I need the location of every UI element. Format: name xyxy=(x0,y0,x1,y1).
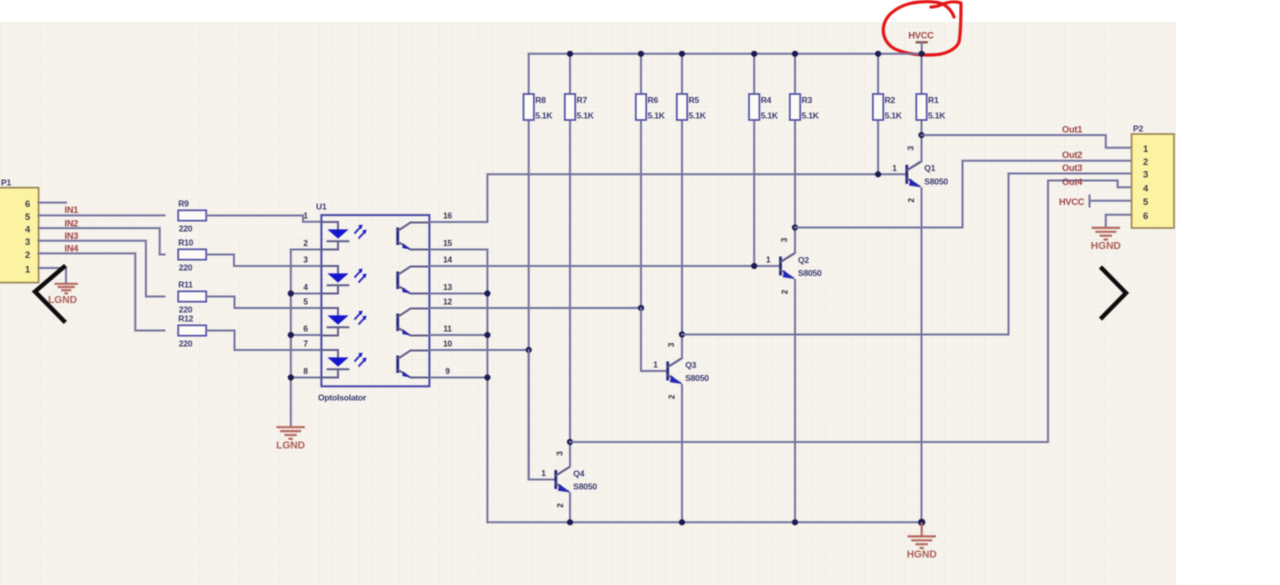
svg-text:5: 5 xyxy=(1143,196,1148,207)
svg-text:1: 1 xyxy=(541,469,546,478)
svg-text:S8050: S8050 xyxy=(924,177,948,187)
junction Q3 emitter/bus xyxy=(679,519,685,525)
resistor R10 220 xyxy=(178,237,206,272)
wire R6 to Q3 base xyxy=(641,308,668,371)
wire U1 cathode stub xyxy=(291,293,322,295)
junction dot U1.12/R6 xyxy=(638,305,644,311)
wire HVCC top bus xyxy=(529,53,922,55)
wire R10 to U1 pin 3 xyxy=(206,255,321,267)
svg-text:5.1K: 5.1K xyxy=(761,110,779,120)
left chevron overlay xyxy=(35,267,64,321)
wire R1 column xyxy=(921,54,923,135)
wire R5 column xyxy=(681,54,683,335)
phototransistor channel 1 inside U1 xyxy=(398,223,430,250)
svg-text:2: 2 xyxy=(303,239,308,248)
svg-text:5.1K: 5.1K xyxy=(802,110,820,120)
svg-text:2: 2 xyxy=(25,249,30,260)
svg-text:R2: R2 xyxy=(885,95,896,105)
resistor R7 5.1K xyxy=(565,94,595,120)
junction Q2 emitter/bus xyxy=(792,519,798,525)
right chevron overlay xyxy=(1102,269,1126,318)
phototransistor channel 3 inside U1 xyxy=(398,309,430,336)
power port HVCC (top) xyxy=(908,31,934,54)
svg-text:1: 1 xyxy=(303,212,308,221)
junction dot R5/Out3 xyxy=(679,331,685,337)
svg-text:8: 8 xyxy=(303,367,308,376)
phototransistor channel 4 inside U1 xyxy=(398,351,430,378)
wire Q4 collector to R7 xyxy=(557,442,570,475)
svg-text:R4: R4 xyxy=(761,95,772,105)
svg-text:3: 3 xyxy=(555,451,564,456)
net label HVCC at P2.5 xyxy=(1059,196,1132,208)
connector P1 xyxy=(0,178,39,283)
resistor R4 5.1K xyxy=(749,94,779,120)
wire R6 column xyxy=(640,54,642,371)
LED channel 4 inside U1 xyxy=(321,350,366,378)
svg-text:15: 15 xyxy=(443,239,452,248)
junction Q1 emitter/HGND xyxy=(918,519,925,526)
resistor R9 220 xyxy=(178,198,206,233)
IC U1 OptoIsolator body xyxy=(316,202,429,403)
svg-text:R11: R11 xyxy=(178,279,193,289)
svg-text:7: 7 xyxy=(303,340,308,349)
svg-text:R3: R3 xyxy=(802,95,813,105)
wire U1.14 to Q2 base / R4 xyxy=(429,265,780,267)
junction dot U1.10/R8 xyxy=(526,347,532,353)
junction R3/HVCC bus xyxy=(792,51,798,57)
phototransistor channel 2 inside U1 xyxy=(398,267,430,294)
svg-text:2: 2 xyxy=(1143,156,1148,167)
wire net IN2: P1.4 to R10 xyxy=(39,228,165,254)
junction dot R4/base xyxy=(751,263,757,269)
svg-text:Q3: Q3 xyxy=(685,360,696,370)
wire net IN4: P1.2 to R12 xyxy=(39,253,165,330)
svg-text:IN2: IN2 xyxy=(65,218,79,228)
wire R12 to U1 pin 7 xyxy=(206,331,321,351)
svg-text:5.1K: 5.1K xyxy=(648,110,666,120)
svg-text:1: 1 xyxy=(1143,143,1148,154)
wire net IN1: P1.5 to R9 xyxy=(39,214,165,216)
svg-text:S8050: S8050 xyxy=(798,268,822,278)
svg-text:R1: R1 xyxy=(928,95,939,105)
junction U1.9/emitter rail xyxy=(484,374,490,380)
svg-text:Out3: Out3 xyxy=(1062,163,1082,173)
junction U1.6/cathode rail xyxy=(288,332,294,338)
U1 right pin numbers xyxy=(443,212,452,377)
junction dot R3/Out2 xyxy=(792,224,798,230)
transistor Q1 S8050 xyxy=(892,145,948,202)
wire U1 cathode stub xyxy=(291,377,322,379)
svg-text:Q1: Q1 xyxy=(924,163,935,173)
wire U1 cathode rail to LGND xyxy=(290,250,292,427)
wire U1.11 stub xyxy=(429,334,487,336)
transistor Q2 S8050 xyxy=(766,237,822,294)
wire net Out2 xyxy=(795,161,1132,228)
svg-text:R9: R9 xyxy=(178,198,189,208)
svg-text:LGND: LGND xyxy=(276,440,305,451)
junction U1.13/emitter rail xyxy=(484,290,490,296)
svg-text:S8050: S8050 xyxy=(573,482,597,492)
junction dot R2/base xyxy=(875,171,881,177)
svg-text:12: 12 xyxy=(443,298,452,307)
wire R8 column xyxy=(528,54,530,480)
svg-text:3: 3 xyxy=(906,145,915,150)
resistor R8 5.1K xyxy=(524,94,554,120)
svg-text:1: 1 xyxy=(653,361,658,370)
junction dot R7/Out4 xyxy=(567,439,573,445)
wire U1.15 emitter to rail xyxy=(429,249,487,251)
wire net Out4 xyxy=(570,181,1132,443)
svg-text:16: 16 xyxy=(443,212,452,221)
svg-text:2: 2 xyxy=(668,394,677,399)
wire Q3 collector to R5 xyxy=(669,335,682,367)
junction R2/HVCC bus xyxy=(875,51,881,57)
svg-text:5.1K: 5.1K xyxy=(689,110,707,120)
svg-text:Out2: Out2 xyxy=(1062,150,1082,160)
LED channel 3 inside U1 xyxy=(321,308,366,336)
svg-text:10: 10 xyxy=(443,340,452,349)
svg-text:4: 4 xyxy=(25,224,31,235)
wire U1.9 stub xyxy=(429,377,487,379)
wire R7 column xyxy=(569,54,571,442)
svg-text:R12: R12 xyxy=(178,313,193,323)
wire P2.6 to HGND xyxy=(1106,215,1132,228)
svg-text:1: 1 xyxy=(25,263,30,274)
junction Q4 emitter/bus xyxy=(567,519,573,525)
svg-text:3: 3 xyxy=(667,342,676,347)
svg-text:HVCC: HVCC xyxy=(1059,197,1085,207)
svg-text:14: 14 xyxy=(443,256,452,265)
svg-text:5: 5 xyxy=(25,211,30,222)
wire R11 to U1 pin 5 xyxy=(206,297,321,309)
wire R9 to U1 pin 1 xyxy=(206,216,321,222)
svg-text:R8: R8 xyxy=(535,95,546,105)
svg-text:Out1: Out1 xyxy=(1062,125,1082,135)
wire net IN3: P1.3 to R11 xyxy=(39,241,165,297)
svg-text:LGND: LGND xyxy=(48,295,77,306)
wire net Out3 xyxy=(682,174,1132,335)
wire U1 cathode stub xyxy=(291,334,322,336)
wire emitter rail down to bottom bus xyxy=(486,250,488,523)
resistor R6 5.1K xyxy=(636,94,666,120)
svg-text:220: 220 xyxy=(179,339,193,349)
resistor R3 5.1K xyxy=(790,94,820,120)
LED channel 2 inside U1 xyxy=(321,266,366,294)
svg-text:P2: P2 xyxy=(1133,124,1143,134)
svg-text:R10: R10 xyxy=(178,237,193,247)
wire U1.10 to R8 column xyxy=(429,349,528,351)
wire bottom HGND bus xyxy=(487,521,921,523)
wire U1.12 to R6 column xyxy=(429,307,641,309)
svg-text:3: 3 xyxy=(1143,169,1148,180)
resistor R11 220 xyxy=(178,279,206,314)
junction R6/HVCC bus xyxy=(638,51,644,57)
svg-text:4: 4 xyxy=(1143,183,1149,194)
svg-text:2: 2 xyxy=(907,197,916,202)
junction U1.11/emitter rail xyxy=(484,332,490,338)
svg-text:U1: U1 xyxy=(316,202,327,212)
wire Q3 emitter down xyxy=(681,385,683,522)
junction HVCC stem/bus xyxy=(919,51,925,57)
svg-text:HGND: HGND xyxy=(1091,241,1121,252)
svg-text:5.1K: 5.1K xyxy=(577,110,595,120)
svg-text:2: 2 xyxy=(556,503,565,508)
wire Q2 collector to R3 xyxy=(782,228,795,262)
svg-text:5.1K: 5.1K xyxy=(535,110,553,120)
svg-text:5.1K: 5.1K xyxy=(928,110,946,120)
svg-text:220: 220 xyxy=(179,224,193,234)
wire R8 to Q4 base xyxy=(529,350,556,480)
svg-text:IN3: IN3 xyxy=(65,231,79,241)
junction R5/HVCC bus xyxy=(679,51,685,57)
resistor R5 5.1K xyxy=(677,94,707,120)
svg-text:R5: R5 xyxy=(689,95,700,105)
ground LGND xyxy=(48,284,78,306)
svg-text:3: 3 xyxy=(303,256,308,265)
svg-text:2: 2 xyxy=(781,289,790,294)
LED channel 1 inside U1 xyxy=(321,222,366,250)
svg-text:220: 220 xyxy=(179,263,193,273)
svg-text:Q2: Q2 xyxy=(798,255,809,265)
wire stem to bottom HGND xyxy=(921,522,923,536)
svg-text:6: 6 xyxy=(1143,210,1148,221)
svg-text:S8050: S8050 xyxy=(685,373,709,383)
wire Q1 emitter down xyxy=(921,188,923,522)
svg-text:1: 1 xyxy=(892,164,897,173)
svg-text:IN4: IN4 xyxy=(65,244,80,254)
svg-text:6: 6 xyxy=(25,198,30,209)
transistor Q3 S8050 xyxy=(653,342,709,399)
svg-text:13: 13 xyxy=(443,283,452,292)
svg-text:3: 3 xyxy=(780,237,789,242)
wire U1 cathode stub xyxy=(291,249,322,251)
wire Q4 emitter down xyxy=(569,494,571,523)
junction dot R1/Out1 xyxy=(918,132,924,138)
resistor R1 5.1K xyxy=(916,94,946,120)
svg-text:5: 5 xyxy=(303,298,308,307)
wire R2 column xyxy=(877,54,879,175)
svg-text:Q4: Q4 xyxy=(573,468,584,478)
transistor Q4 S8050 xyxy=(541,451,597,508)
svg-text:1: 1 xyxy=(766,256,771,265)
svg-text:11: 11 xyxy=(443,325,452,334)
junction U1.8/cathode rail xyxy=(288,374,294,380)
red pen annotation circle around HVCC xyxy=(883,2,961,55)
svg-text:5.1K: 5.1K xyxy=(885,110,903,120)
wire U1.13 stub xyxy=(429,293,487,295)
wire P1.1 to LGND xyxy=(39,268,66,284)
svg-text:OptoIsolator: OptoIsolator xyxy=(318,393,367,403)
svg-text:6: 6 xyxy=(303,325,308,334)
junction U1.4/cathode rail xyxy=(288,290,294,296)
ground HGND xyxy=(907,536,937,560)
svg-text:3: 3 xyxy=(25,236,30,247)
svg-text:9: 9 xyxy=(445,367,450,376)
svg-text:Out4: Out4 xyxy=(1062,177,1083,187)
ground HGND xyxy=(1091,228,1121,252)
junction R4/HVCC bus xyxy=(751,51,757,57)
U1 left pin numbers xyxy=(303,212,308,377)
wire Q2 emitter down xyxy=(794,280,796,522)
connector P2 xyxy=(1132,124,1174,229)
svg-text:IN1: IN1 xyxy=(65,205,79,215)
resistor R12 220 xyxy=(178,313,206,348)
wire R3 column xyxy=(794,54,796,228)
wire Q1 collector to R1 xyxy=(908,135,922,169)
svg-text:HGND: HGND xyxy=(907,550,937,561)
svg-text:P1: P1 xyxy=(1,178,11,188)
svg-text:4: 4 xyxy=(303,283,308,292)
resistor R2 5.1K xyxy=(873,94,903,120)
wire U1.16 to Q1 base / R2 xyxy=(429,174,906,222)
junction R7/HVCC bus xyxy=(567,51,573,57)
svg-text:R6: R6 xyxy=(648,95,659,105)
wire R4 column xyxy=(753,54,755,266)
wire P1 pin 6 stub (n.c.) xyxy=(39,202,66,204)
svg-text:HVCC: HVCC xyxy=(908,31,934,41)
ground LGND xyxy=(276,427,305,451)
svg-text:R7: R7 xyxy=(577,95,588,105)
wire net Out1 xyxy=(922,135,1132,148)
